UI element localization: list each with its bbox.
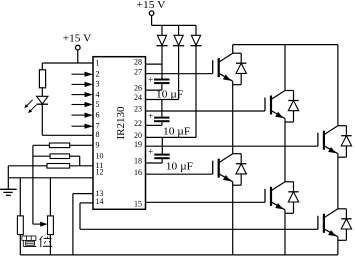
input arrow pin 2 HIN1 bbox=[72, 73, 87, 75]
wire: R5 bottom bbox=[19, 235, 21, 255]
label 置位 (set) bbox=[22, 236, 36, 240]
bootstrap diode VD2 bbox=[174, 35, 183, 45]
wire: diode VD2 anode drop bbox=[178, 25, 180, 35]
svg-text:15: 15 bbox=[134, 199, 142, 208]
wire: pin 14 LO2 route bbox=[80, 202, 93, 204]
wire: pin 1 supply line bbox=[42, 62, 93, 64]
freewheel diode VD9 bbox=[338, 208, 347, 210]
svg-text:10 µF: 10 µF bbox=[156, 89, 184, 100]
wire: pin 15 LO1 to VT4 gate bbox=[146, 201, 266, 203]
wire: pin 11 line bbox=[70, 165, 93, 167]
svg-text:+: + bbox=[148, 146, 153, 156]
wire: +15V mid stem bbox=[151, 15, 153, 25]
wire: pin 12 VSS ground line bbox=[8, 177, 93, 179]
resistor R3 (CAO) bbox=[50, 154, 70, 159]
svg-text:23: 23 bbox=[134, 105, 142, 114]
capacitor C3 (+ plate top) bbox=[154, 154, 169, 156]
freewheel diode VD8 bbox=[285, 181, 294, 183]
svg-text:18: 18 bbox=[134, 157, 142, 166]
input arrow pin 5 LIN1 bbox=[72, 104, 87, 106]
resistor R4 (CA-) bbox=[47, 164, 70, 169]
wire: positive bus rail bbox=[233, 44, 338, 46]
resistor R6 (set) bbox=[48, 216, 54, 235]
input arrow pin 6 LIN2 bbox=[72, 114, 87, 116]
transistor VT6 (low IGBT) bbox=[317, 216, 319, 230]
svg-text:20: 20 bbox=[134, 131, 142, 140]
svg-text:28: 28 bbox=[134, 58, 142, 67]
resistor R2 (ITRIP) bbox=[49, 143, 69, 148]
wire: pin 28 VB1 bbox=[146, 63, 163, 65]
resistor R1 bbox=[39, 70, 45, 88]
wire: leg V column bbox=[284, 45, 286, 91]
svg-text:10 µF: 10 µF bbox=[166, 162, 194, 173]
wire: leg W column bbox=[337, 45, 339, 126]
svg-text:26: 26 bbox=[134, 84, 142, 93]
wire: diode VD3 anode drop bbox=[195, 25, 197, 35]
transistor VT5 (phase W high IGBT) bbox=[317, 133, 319, 147]
svg-text:19: 19 bbox=[134, 140, 142, 149]
wire: pin 23 HO2 to VT3 gate bbox=[146, 110, 266, 112]
wire: branch down to R1 bbox=[41, 63, 43, 70]
wire: pin 16 to VT2 gate bbox=[146, 173, 213, 175]
wire: R3 left bbox=[33, 155, 50, 157]
svg-text:+15 V: +15 V bbox=[63, 32, 92, 44]
svg-text:9: 9 bbox=[96, 141, 100, 150]
svg-text:+: + bbox=[148, 74, 153, 84]
transistor VT3 (phase V high IGBT) bbox=[264, 98, 266, 112]
transistor VT4 (low IGBT) bbox=[264, 189, 266, 203]
svg-text:6: 6 bbox=[96, 110, 100, 119]
wire: R6 bottom bbox=[49, 235, 51, 255]
bootstrap diode VD1 bbox=[157, 35, 166, 45]
wire: C3 feed from VB3 bbox=[161, 137, 163, 153]
svg-text:2: 2 bbox=[96, 70, 100, 79]
wire: C2 feed from VB2 bbox=[161, 100, 163, 117]
resistor R5 (set) bbox=[17, 216, 23, 235]
svg-text:5: 5 bbox=[96, 100, 100, 109]
wire: pin 13 LO3 route bbox=[73, 193, 93, 195]
wire: pin 19 HO3 to VT5 gate bbox=[146, 145, 318, 147]
svg-text:IR2130: IR2130 bbox=[115, 106, 127, 140]
svg-text:10: 10 bbox=[96, 152, 104, 161]
bootstrap diode VD3 bbox=[191, 35, 200, 45]
wire: ground stem vertical bbox=[7, 166, 9, 189]
input arrow pin 3 HIN2 bbox=[72, 83, 87, 85]
wire: +15V left stem bbox=[77, 50, 79, 63]
input arrow pin 7 LIN3 bbox=[72, 125, 87, 127]
svg-text:3: 3 bbox=[96, 80, 100, 89]
wire: C1 bottom to pin 26 VS1 bbox=[161, 83, 163, 90]
wire: C2 bottom to pin 22 VS2 bbox=[161, 121, 163, 125]
wire: R4 left to ground stem bbox=[8, 165, 47, 167]
freewheel diode VD6 bbox=[338, 125, 347, 127]
svg-text:8: 8 bbox=[96, 130, 100, 139]
wire: bootstrap supply rail bbox=[152, 24, 196, 26]
wire: pin 9 to R2 bbox=[70, 144, 93, 146]
input arrow pin 4 HIN3 bbox=[72, 94, 87, 96]
freewheel diode VD5 bbox=[285, 90, 294, 92]
capacitor C2 (+ plate top) bbox=[154, 117, 169, 119]
svg-text:+: + bbox=[148, 111, 153, 121]
wire: pin 27 HO1 to VT1 gate bbox=[146, 73, 213, 75]
wire: R2 left bbox=[33, 144, 50, 146]
ground symbol bbox=[0, 188, 17, 190]
wire: leg U column bbox=[232, 45, 234, 54]
transistor VT1 (phase U high IGBT) bbox=[212, 60, 214, 73]
set arrow into R6 bbox=[33, 223, 42, 225]
wire: pin 20 VB3 bbox=[146, 136, 197, 138]
svg-text:+15 V: +15 V bbox=[137, 0, 166, 11]
svg-text:22: 22 bbox=[134, 119, 142, 128]
wire: diode VD1 anode drop bbox=[161, 25, 163, 35]
svg-text:27: 27 bbox=[134, 67, 142, 76]
svg-text:12: 12 bbox=[96, 168, 104, 177]
transistor VT2 (low IGBT) bbox=[212, 161, 214, 175]
wire: VD3 cathode to VB3 node bbox=[195, 46, 197, 138]
wire: LED cathode down bbox=[41, 104, 43, 135]
svg-text:4: 4 bbox=[96, 90, 100, 99]
freewheel diode VD7 bbox=[233, 153, 242, 155]
IC U1 IR2130 body bbox=[93, 57, 146, 210]
wire: C3 bottom to pin 18 VS3 bbox=[161, 158, 163, 163]
wire: VD1 cathode to VB1 node bbox=[161, 46, 163, 79]
wire: R1 to LED bbox=[41, 88, 43, 97]
wire: R3 right jog bbox=[70, 155, 80, 157]
svg-text:16: 16 bbox=[134, 168, 142, 177]
svg-text:1: 1 bbox=[96, 58, 100, 67]
wire: bottom emitter rail bbox=[20, 254, 338, 256]
LED VL (fault indicator) bbox=[37, 96, 48, 104]
capacitor C1 (+ plate top) bbox=[154, 79, 169, 81]
wire: R5 top feed bbox=[19, 178, 21, 216]
svg-text:14: 14 bbox=[96, 197, 104, 206]
wire: VD2 cathode to VB2 node bbox=[178, 46, 180, 100]
wire: R6 top feed bbox=[49, 178, 51, 216]
freewheel diode VD4 bbox=[233, 52, 242, 54]
svg-text:24: 24 bbox=[134, 93, 142, 102]
wire: junction bus down (R2/R3 left) bbox=[32, 145, 34, 224]
wire: pin 24 VB2 bbox=[146, 99, 179, 101]
svg-text:10 µF: 10 µF bbox=[163, 126, 191, 137]
wire: to pin 8 FAULT bbox=[42, 134, 93, 136]
